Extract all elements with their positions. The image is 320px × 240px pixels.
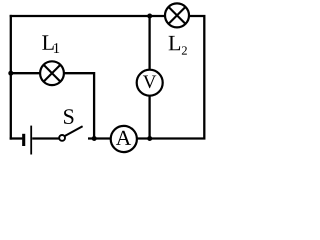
wire bottom left (battery left lead)	[10, 137, 23, 139]
label L2 letter L	[169, 36, 180, 50]
label L1 subscript 1	[54, 43, 59, 53]
label L2 subscript 2	[182, 46, 187, 54]
label S	[64, 109, 73, 124]
battery negative plate (short thick)	[22, 134, 25, 146]
wire switch to ammeter and junction	[88, 137, 124, 139]
node dot top/V junction	[147, 14, 152, 19]
node dot left/L1 junction	[8, 71, 13, 76]
switch blade	[65, 126, 83, 136]
battery positive plate (long thin)	[30, 126, 32, 155]
ammeter A	[111, 126, 137, 152]
wire voltmeter branch	[148, 16, 150, 139]
lamp L2	[165, 3, 189, 27]
node dot bottom/V junction	[147, 136, 152, 141]
wire top	[10, 15, 177, 17]
wire left vertical	[10, 15, 12, 140]
wire L1 row	[11, 73, 94, 138]
wire ammeter to V junction	[124, 137, 151, 139]
switch pivot circle	[59, 135, 65, 141]
wire right vertical	[150, 16, 204, 139]
wire battery to switch	[32, 137, 59, 139]
node dot bottom/L1 junction	[92, 136, 97, 141]
lamp L1	[40, 61, 64, 85]
voltmeter V	[137, 70, 163, 96]
label L1 letter L	[42, 35, 53, 49]
